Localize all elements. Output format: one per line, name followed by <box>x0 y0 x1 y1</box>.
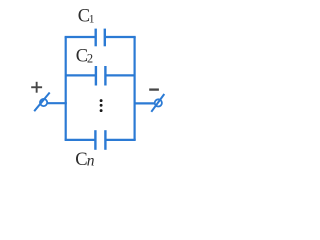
wire: top branch, right segment <box>105 36 136 38</box>
svg-text:2: 2 <box>87 52 93 66</box>
terminal: left open terminal (circle with slash) <box>34 93 50 112</box>
wire: C2 branch, right segment <box>105 74 134 76</box>
wire: left terminal lead <box>48 102 67 104</box>
capacitor Cn <box>95 130 105 150</box>
capacitor C1 <box>96 29 105 47</box>
svg-text:n: n <box>87 152 95 169</box>
minus sign (−) <box>149 88 159 90</box>
wire: top branch, left segment <box>65 36 96 38</box>
svg-text:1: 1 <box>89 13 95 25</box>
wire: C2 branch, left segment <box>66 74 96 76</box>
terminal: right open terminal (circle with slash) <box>151 94 164 112</box>
ellipsis dots: more capacitors <box>100 99 103 112</box>
svg-text:C: C <box>75 150 87 170</box>
wire: left rail <box>65 37 67 140</box>
wire: right terminal lead <box>134 102 155 104</box>
wire: bottom branch, right segment <box>105 139 135 141</box>
wire: bottom branch, left segment <box>65 139 96 141</box>
capacitor C2 <box>96 66 106 86</box>
wire: right rail <box>134 37 136 140</box>
plus sign (+) <box>31 82 42 93</box>
